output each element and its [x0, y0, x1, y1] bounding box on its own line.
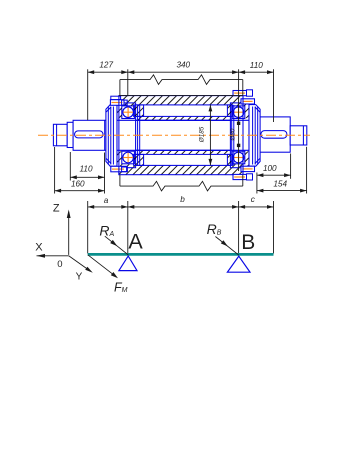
bearing A outer ring	[117, 103, 136, 168]
axis X	[37, 255, 69, 257]
svg-text:RB: RB	[207, 221, 222, 237]
shaft right end cylinder	[290, 126, 307, 145]
drum right face	[242, 96, 244, 175]
shaft left journal	[73, 120, 105, 150]
svg-text:Z: Z	[53, 203, 60, 215]
drum shell bottom band (hatched)	[119, 165, 243, 174]
keyway right	[261, 131, 287, 139]
drum right end disc	[227, 105, 232, 117]
support A triangle	[119, 256, 137, 271]
shaft lines through bearings	[117, 119, 249, 121]
bearing B outer ring	[230, 103, 249, 168]
svg-text:110: 110	[79, 164, 92, 173]
bearing B top ball	[233, 107, 244, 118]
extension line support A	[127, 201, 129, 255]
svg-text:340: 340	[176, 61, 190, 70]
bearing B housing cap	[249, 105, 260, 167]
dim 160 bottom left	[55, 190, 105, 192]
drum left end disc	[134, 105, 144, 117]
svg-text:0: 0	[57, 259, 62, 270]
abc dimension line	[88, 206, 274, 208]
break line top	[120, 75, 243, 85]
vertical dim drum bore	[209, 105, 211, 165]
dim 154 bottom right	[257, 190, 307, 192]
svg-text:a: a	[104, 196, 109, 205]
bearing A housing cap	[106, 105, 117, 167]
keyway left	[75, 131, 103, 138]
svg-text:b: b	[180, 195, 185, 204]
bearing A top ball	[123, 107, 134, 118]
shaft through lines	[105, 119, 255, 121]
top dimension line 127/340/110	[88, 71, 274, 73]
force FM arrow	[88, 255, 116, 277]
svg-text:FM: FM	[114, 280, 128, 294]
drum top edge dark line	[119, 95, 243, 97]
break line bottom	[120, 181, 243, 191]
bearing B bottom ball	[233, 152, 244, 163]
shaft left end cylinder	[53, 124, 67, 146]
bearing B top bolts	[233, 91, 247, 96]
vertical dim bearing bore	[237, 122, 240, 125]
drum inner tube bottom band	[121, 150, 241, 154]
bearing A bottom bolt	[111, 166, 127, 172]
svg-text:127: 127	[99, 61, 113, 70]
svg-text:110: 110	[250, 61, 263, 70]
svg-text:154: 154	[273, 180, 287, 189]
svg-text:X: X	[35, 242, 43, 254]
beam	[88, 253, 274, 256]
svg-text:RA: RA	[99, 222, 114, 238]
shaft right journal	[255, 117, 290, 152]
bearing A top bolt	[111, 96, 121, 99]
dim 100 bottom right	[257, 174, 291, 176]
svg-text:Y: Y	[76, 272, 83, 283]
dim 110 bottom left	[70, 176, 104, 178]
force RA arrow	[105, 236, 129, 255]
bearing A bottom ball	[123, 152, 134, 163]
extension line right end	[273, 201, 275, 254]
extension line support B	[238, 201, 240, 255]
svg-text:100: 100	[263, 164, 277, 173]
force RB arrow	[215, 237, 239, 256]
svg-text:A: A	[128, 229, 143, 253]
drum inner tube top band	[121, 116, 241, 120]
shaft left step collar	[67, 122, 73, 147]
drum left face	[118, 96, 120, 175]
extension line left end (node at beam left)	[87, 201, 89, 254]
svg-text:160: 160	[71, 179, 85, 188]
svg-text:c: c	[251, 195, 255, 204]
axis Y	[69, 256, 91, 271]
support B triangle	[227, 256, 250, 272]
axis Z	[68, 212, 70, 255]
drum shell top band (hatched)	[119, 96, 243, 105]
bearing B bottom bolts	[241, 166, 255, 171]
centerline	[38, 134, 310, 136]
svg-text:Ø80: Ø80	[230, 128, 237, 141]
svg-text:Ø185: Ø185	[199, 126, 206, 143]
svg-text:B: B	[241, 231, 255, 254]
